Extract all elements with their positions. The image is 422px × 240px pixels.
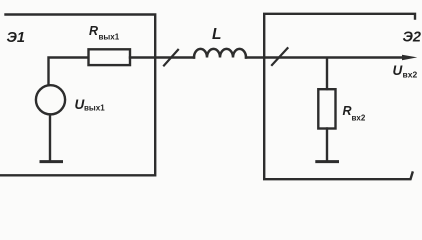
ground (right, under Rвх2): [317, 160, 338, 163]
svg-text:вх2: вх2: [403, 70, 418, 80]
svg-text:вых1: вых1: [99, 33, 120, 42]
wire: inductor L to arrow with junction at Rвх2: [246, 56, 404, 58]
svg-text:L: L: [212, 26, 221, 43]
svg-text:Э2: Э2: [403, 30, 422, 46]
svg-text:R: R: [89, 24, 98, 38]
wire: Rвых1 right to inductor L: [130, 56, 194, 58]
label Rвых1: [89, 24, 120, 42]
label Э2: [403, 30, 422, 46]
wire: Uвых1 bottom to ground: [49, 114, 51, 161]
cut mark (line break) right: [272, 48, 288, 65]
ground (left, under Uвых1): [41, 160, 62, 163]
label Э1: [7, 30, 26, 46]
svg-text:R: R: [343, 104, 352, 118]
arrowhead of Uвх2 wire: [402, 55, 417, 61]
block Э1 outline: [0, 15, 155, 176]
label Uвых1: [75, 97, 106, 113]
cut mark (line break) left: [164, 50, 178, 66]
label Rвх2: [343, 104, 366, 123]
wire: Rвх2 bottom to ground: [326, 129, 328, 162]
resistor Rвых1 body: [89, 49, 131, 65]
svg-text:Э1: Э1: [7, 30, 26, 46]
resistor Rвх2 body: [318, 89, 335, 128]
label Uвх2: [393, 63, 418, 80]
wire: Uвых1 top to Rвых1 left: [49, 58, 89, 85]
block Э2 outline: [264, 14, 415, 179]
wire: junction to Rвх2 top: [326, 59, 328, 90]
source Uвых1 circle: [36, 85, 65, 114]
inductor L coil: [194, 49, 246, 58]
label L: [212, 26, 221, 43]
svg-text:вых1: вых1: [84, 104, 105, 113]
svg-text:вх2: вх2: [352, 114, 366, 123]
